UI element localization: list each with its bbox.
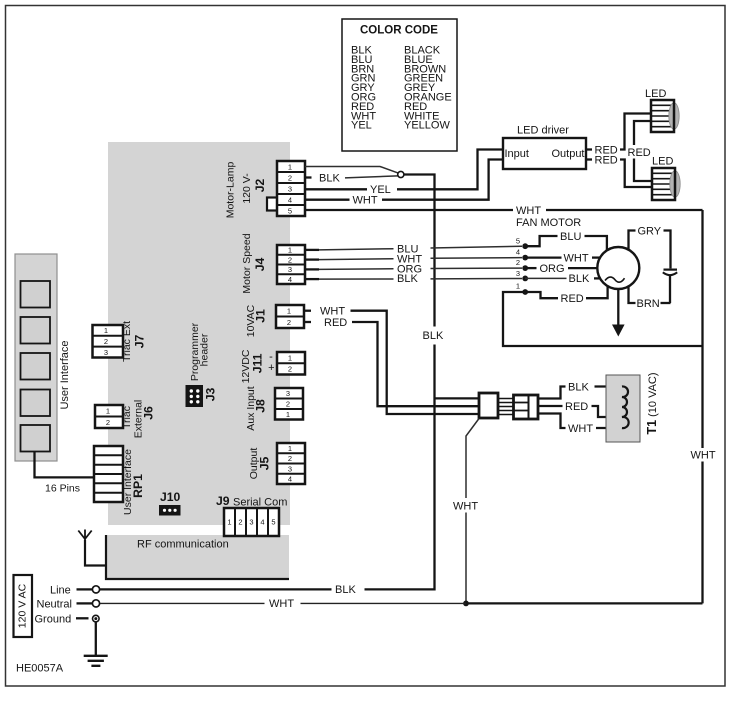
- svg-text:2: 2: [104, 337, 108, 346]
- svg-text:RED: RED: [324, 317, 347, 329]
- motor pin 4: [516, 248, 528, 261]
- svg-text:120 V AC: 120 V AC: [17, 583, 29, 628]
- svg-text:J10: J10: [160, 490, 181, 504]
- inline connector block CN1: [479, 393, 498, 418]
- svg-text:ORG: ORG: [540, 263, 565, 275]
- svg-text:1: 1: [227, 518, 231, 527]
- svg-text:1: 1: [104, 326, 108, 335]
- svg-text:RED: RED: [565, 401, 588, 413]
- wire motor BLK: [525, 273, 600, 285]
- svg-text:J7: J7: [133, 335, 147, 349]
- wire motor BLU: [525, 231, 607, 251]
- svg-text:Ground: Ground: [35, 614, 72, 626]
- svg-text:Input: Input: [505, 148, 529, 160]
- svg-text:1: 1: [288, 246, 292, 255]
- svg-text:1: 1: [288, 162, 292, 171]
- svg-text:WHT: WHT: [353, 195, 378, 207]
- motor pin 3: [516, 269, 528, 281]
- motor pin 5: [516, 237, 528, 250]
- 120 V AC source box: [14, 575, 33, 637]
- connector J9 Serial Com: [216, 494, 287, 536]
- svg-text:COLOR CODE: COLOR CODE: [360, 25, 438, 37]
- svg-text:Output: Output: [551, 148, 584, 160]
- svg-text:BLK: BLK: [569, 273, 590, 285]
- junction dot on neutral: [463, 601, 469, 607]
- svg-text:WHT: WHT: [320, 306, 345, 318]
- svg-text:RED: RED: [628, 147, 651, 159]
- svg-text:Triac Ext: Triac Ext: [121, 321, 133, 362]
- wire BLK main vertical: [365, 175, 444, 590]
- ground terminal: [35, 614, 100, 626]
- connector J5 Output: [248, 443, 305, 484]
- svg-text:J3: J3: [204, 388, 218, 402]
- earth ground symbol: [84, 622, 108, 666]
- wire BRN from capacitor to motor: [629, 287, 671, 311]
- wire RED series link between LEDs: [628, 121, 653, 181]
- svg-text:header: header: [199, 333, 211, 366]
- wire GRY to run capacitor: [629, 226, 671, 269]
- svg-text:2: 2: [238, 518, 242, 527]
- svg-text:Serial Com: Serial Com: [233, 497, 287, 509]
- svg-text:4: 4: [260, 518, 264, 527]
- svg-text:2: 2: [288, 173, 292, 182]
- main PCB board: [108, 142, 290, 525]
- svg-text:1: 1: [516, 282, 520, 291]
- svg-text:YEL: YEL: [351, 120, 372, 132]
- svg-text:4: 4: [288, 275, 292, 284]
- wire J2 pin5 WHT to right side: [305, 205, 703, 217]
- transformer T1 (10 VAC): [606, 372, 659, 442]
- svg-text:J6: J6: [142, 406, 156, 420]
- svg-text:4: 4: [288, 475, 292, 484]
- svg-text:RF communication: RF communication: [137, 539, 229, 551]
- svg-text:2: 2: [287, 318, 291, 327]
- svg-text:1: 1: [288, 444, 292, 453]
- svg-text:T1 (10 VAC): T1 (10 VAC): [645, 372, 659, 434]
- svg-text:HE0057A: HE0057A: [16, 663, 64, 675]
- connector hatch wires: [498, 399, 514, 415]
- motor pin 1: [516, 282, 528, 295]
- svg-text:BLK: BLK: [335, 584, 356, 596]
- svg-text:RED: RED: [595, 154, 618, 166]
- svg-text:12VDC: 12VDC: [240, 349, 252, 383]
- svg-text:RED: RED: [561, 293, 584, 305]
- neutral terminal: [37, 599, 100, 611]
- fan motor M1: [597, 247, 639, 289]
- svg-text:BLK: BLK: [568, 382, 589, 394]
- svg-text:WHT: WHT: [691, 450, 716, 462]
- svg-text:WHT: WHT: [269, 598, 294, 610]
- connector J4 Motor Speed: [241, 233, 305, 293]
- svg-text:Motor-Lamp: Motor-Lamp: [225, 162, 237, 219]
- svg-text:User Interface: User Interface: [59, 340, 71, 409]
- wire J1 pin2 RED to inline connector: [304, 317, 479, 406]
- svg-text:16 Pins: 16 Pins: [45, 483, 80, 495]
- svg-text:3: 3: [516, 269, 520, 278]
- wire WHT right vertical to neutral: [691, 210, 716, 603]
- color code legend: [342, 19, 457, 151]
- svg-text:5: 5: [271, 518, 275, 527]
- RF communication board: [106, 535, 289, 579]
- wire J4 pin2 WHT to motor pin4: [305, 254, 522, 266]
- svg-text:WHT: WHT: [564, 252, 589, 264]
- svg-text:J2: J2: [253, 179, 267, 193]
- wire motor ORG: [525, 263, 597, 275]
- svg-text:2: 2: [288, 365, 292, 374]
- svg-text:FAN MOTOR: FAN MOTOR: [516, 217, 581, 229]
- LED 1: [645, 88, 679, 132]
- svg-text:3: 3: [288, 265, 292, 274]
- svg-text:BLK: BLK: [397, 273, 418, 285]
- programmer header J3: [186, 322, 218, 407]
- svg-text:2: 2: [286, 400, 290, 409]
- svg-text:3: 3: [249, 518, 253, 527]
- svg-text:Line: Line: [50, 585, 71, 597]
- svg-text:GRY: GRY: [638, 226, 662, 238]
- svg-text:BLU: BLU: [560, 231, 581, 243]
- wire J4 pin3 ORG to motor pin2: [305, 263, 522, 275]
- svg-text:1: 1: [287, 306, 291, 315]
- svg-text:1: 1: [286, 410, 290, 419]
- connector J11 12VDC: [240, 349, 305, 383]
- svg-text:+: +: [268, 362, 274, 374]
- wire J2 pin3 YEL to LED driver input: [305, 150, 503, 197]
- drawing number HE0057A: [16, 663, 64, 675]
- svg-text:YELLOW: YELLOW: [404, 120, 450, 132]
- svg-text:J4: J4: [253, 258, 267, 272]
- wire J2 pin2 BLK to junction: [305, 173, 398, 185]
- inline connector block CN2: [514, 395, 539, 419]
- wire motor WHT: [525, 252, 600, 264]
- svg-text:2: 2: [288, 255, 292, 264]
- svg-text:3: 3: [104, 348, 108, 357]
- wire BLK branch to inline connector: [435, 397, 480, 399]
- run capacitor C1: [663, 270, 677, 303]
- svg-text:Neutral: Neutral: [37, 599, 72, 611]
- svg-text:3: 3: [288, 184, 292, 193]
- svg-text:2: 2: [106, 418, 110, 427]
- LED driver U-LED: [503, 125, 586, 170]
- svg-text:LED: LED: [652, 156, 673, 168]
- svg-text:5: 5: [288, 206, 292, 215]
- connector J1 10VAC: [245, 304, 304, 337]
- motor frame ground arrow: [612, 289, 625, 337]
- svg-text:J9: J9: [216, 494, 230, 508]
- motor pin 2: [516, 258, 528, 271]
- svg-text:4: 4: [516, 248, 520, 257]
- svg-text:10VAC: 10VAC: [245, 304, 257, 337]
- wire LED driver output RED bottom: [586, 154, 652, 187]
- svg-text:WHT: WHT: [568, 423, 593, 435]
- connector J7 Triac Ext: [93, 321, 147, 362]
- svg-text:2: 2: [516, 258, 520, 267]
- antenna: [78, 530, 106, 566]
- connector J6 External Triac: [95, 400, 156, 439]
- svg-text:3: 3: [288, 464, 292, 473]
- connector RP1 User Interface: [94, 446, 145, 515]
- wire 16 pins from user interface to RP1: [35, 451, 95, 495]
- svg-text:Output: Output: [248, 448, 260, 480]
- svg-text:Motor Speed: Motor Speed: [241, 233, 253, 293]
- svg-text:LED driver: LED driver: [517, 125, 569, 137]
- svg-text:120 V-: 120 V-: [241, 173, 253, 204]
- wire motor pin1 to neutral riser: [503, 292, 703, 346]
- svg-text:4: 4: [288, 195, 292, 204]
- junction (open circle): [398, 171, 404, 177]
- connector J2 120V Motor-Lamp: [225, 161, 306, 218]
- line terminal: [50, 585, 100, 597]
- wire WHT from connector down to neutral: [453, 419, 479, 604]
- wire RED to T1 tap: [538, 401, 622, 417]
- svg-text:BLK: BLK: [319, 173, 340, 185]
- svg-text:1: 1: [106, 406, 110, 415]
- fan motor label: [516, 217, 581, 229]
- wire J2 pin4 WHT to LED driver input: [305, 160, 503, 207]
- svg-text:WHT: WHT: [516, 205, 541, 217]
- svg-text:5: 5: [516, 237, 520, 246]
- wire J4 pin1 BLU to motor pin5: [305, 243, 522, 255]
- svg-text:WHT: WHT: [453, 501, 478, 513]
- wire neutral WHT: [100, 598, 703, 610]
- wire BLK to T1: [538, 382, 622, 399]
- svg-text:BRN: BRN: [637, 298, 660, 310]
- wire J1 pin1 WHT to inline connector: [304, 306, 479, 415]
- wire line BLK: [100, 584, 356, 596]
- wire LED driver output RED top: [586, 114, 651, 157]
- svg-text:J11: J11: [251, 353, 265, 373]
- svg-text:RP1: RP1: [131, 474, 145, 498]
- svg-text:2: 2: [288, 454, 292, 463]
- wire J2 pin1 to junction: [305, 167, 398, 173]
- wire motor RED: [525, 286, 608, 305]
- svg-text:1: 1: [288, 353, 292, 362]
- LED 2: [652, 156, 680, 201]
- svg-text:3: 3: [286, 389, 290, 398]
- user interface display module: [15, 254, 71, 461]
- wire J4 pin4 BLK to motor pin3: [305, 273, 522, 285]
- svg-text:Aux Input: Aux Input: [245, 386, 257, 430]
- connector J8 Aux Input: [245, 386, 303, 430]
- svg-text:Triac: Triac: [121, 406, 133, 429]
- wire WHT to T1: [538, 414, 622, 436]
- connector J10: [159, 490, 181, 516]
- svg-text:LED: LED: [645, 88, 666, 100]
- svg-text:BLK: BLK: [423, 330, 444, 342]
